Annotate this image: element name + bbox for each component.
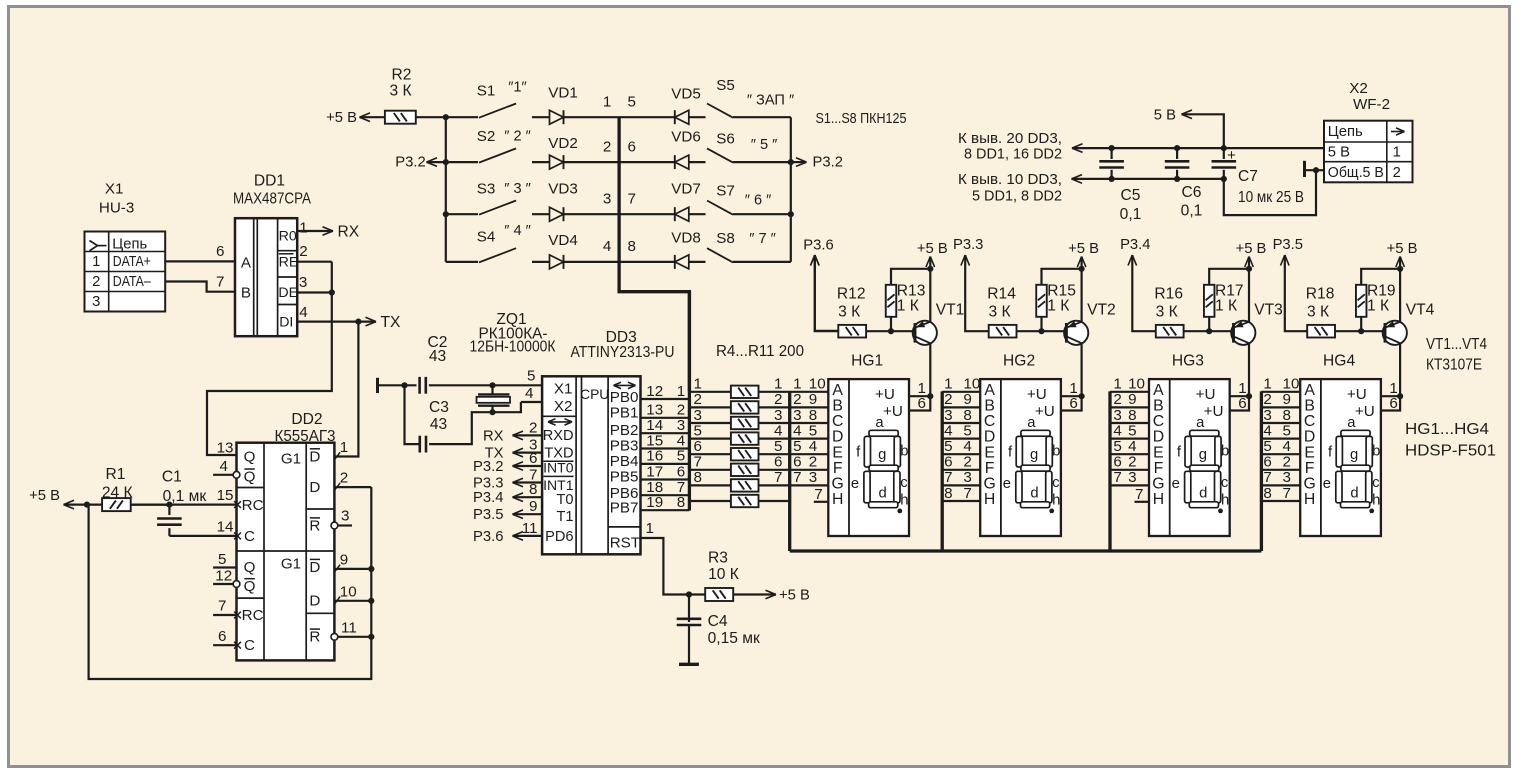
svg-text:+5 В: +5 В — [779, 587, 810, 603]
svg-text:+U: +U — [875, 386, 895, 403]
svg-text:X1: X1 — [105, 180, 124, 197]
svg-text:C6: C6 — [1182, 184, 1202, 201]
svg-text:3: 3 — [603, 190, 611, 207]
svg-text:C1: C1 — [162, 468, 182, 485]
svg-text:Общ.5 В: Общ.5 В — [1328, 165, 1384, 181]
svg-text:D: D — [1153, 429, 1164, 446]
svg-text:Р3.2: Р3.2 — [395, 155, 425, 171]
svg-text:5: 5 — [527, 367, 535, 384]
svg-text:6: 6 — [774, 454, 782, 471]
svg-text:6: 6 — [694, 438, 702, 455]
svg-text:R14: R14 — [987, 285, 1016, 302]
svg-text:B: B — [832, 398, 843, 415]
svg-text:+U: +U — [1204, 403, 1224, 420]
svg-text:10 мк 25 В: 10 мк 25 В — [1238, 189, 1304, 206]
svg-text:6: 6 — [793, 454, 801, 471]
svg-text:c: c — [900, 475, 908, 491]
svg-text:3: 3 — [1128, 469, 1136, 486]
svg-text:Р3.5: Р3.5 — [1273, 237, 1303, 253]
svg-text:8: 8 — [1263, 485, 1271, 502]
svg-text:Q: Q — [244, 449, 256, 466]
svg-text:7: 7 — [216, 274, 224, 291]
svg-text:d: d — [1199, 486, 1207, 502]
svg-text:5 В: 5 В — [1328, 145, 1350, 161]
svg-text:A: A — [241, 255, 252, 272]
svg-text:R1: R1 — [106, 466, 126, 483]
svg-text:VD2: VD2 — [548, 135, 578, 152]
svg-text:HG3: HG3 — [1172, 352, 1204, 369]
svg-text:8: 8 — [529, 481, 537, 498]
svg-text:HG2: HG2 — [1003, 352, 1035, 369]
svg-text:VD8: VD8 — [671, 229, 701, 246]
svg-text:6: 6 — [1263, 454, 1271, 471]
svg-text:H: H — [984, 491, 995, 508]
svg-text:2: 2 — [1283, 454, 1291, 471]
svg-text:h: h — [1052, 492, 1060, 508]
svg-text:43: 43 — [429, 348, 446, 365]
svg-text:VT3: VT3 — [1254, 302, 1283, 319]
svg-text:e: e — [1003, 476, 1011, 492]
svg-text:1: 1 — [1393, 145, 1401, 161]
svg-text:2: 2 — [774, 391, 782, 408]
svg-text:R12: R12 — [837, 285, 866, 302]
svg-text:2: 2 — [944, 391, 952, 408]
svg-text:″ 7 ″: ″ 7 ″ — [749, 231, 776, 247]
svg-text:X2: X2 — [554, 398, 573, 415]
svg-text:h: h — [1221, 492, 1229, 508]
svg-text:VD3: VD3 — [548, 181, 578, 198]
svg-text:c: c — [1052, 475, 1060, 491]
svg-text:3: 3 — [809, 469, 817, 486]
svg-text:MAX487CPA: MAX487CPA — [233, 191, 312, 208]
svg-text:R: R — [309, 517, 320, 534]
svg-text:D: D — [309, 479, 320, 496]
svg-text:2: 2 — [963, 454, 971, 471]
svg-text:E: E — [984, 444, 995, 461]
svg-text:4: 4 — [1283, 438, 1291, 455]
svg-text:+U: +U — [1196, 386, 1216, 403]
svg-text:b: b — [1372, 443, 1380, 459]
svg-text:″ 6 ″: ″ 6 ″ — [745, 193, 772, 209]
svg-text:g: g — [1199, 447, 1207, 463]
svg-text:A: A — [832, 382, 843, 399]
svg-text:4: 4 — [299, 304, 307, 321]
svg-text:C: C — [1304, 413, 1315, 430]
svg-text:4: 4 — [1113, 422, 1121, 439]
svg-text:H: H — [1304, 491, 1315, 508]
svg-text:C4: C4 — [708, 613, 728, 630]
svg-text:d: d — [1350, 486, 1358, 502]
svg-text:R16: R16 — [1154, 285, 1183, 302]
svg-text:VT1...VT4: VT1...VT4 — [1426, 336, 1487, 353]
svg-text:Р3.2: Р3.2 — [473, 459, 503, 475]
svg-text:0,1 мк: 0,1 мк — [163, 488, 207, 505]
svg-text:PD6: PD6 — [545, 529, 573, 545]
svg-text:10 К: 10 К — [708, 566, 739, 583]
svg-text:5: 5 — [809, 422, 817, 439]
svg-text:9: 9 — [340, 552, 348, 569]
svg-text:11: 11 — [341, 619, 357, 636]
svg-text:6: 6 — [944, 454, 952, 471]
svg-text:3: 3 — [1113, 407, 1121, 424]
svg-text:B: B — [241, 285, 251, 302]
svg-text:5: 5 — [1283, 422, 1291, 439]
svg-text:5 В: 5 В — [1154, 108, 1176, 124]
svg-text:H: H — [832, 491, 843, 508]
svg-text:C: C — [832, 413, 843, 430]
svg-text:6: 6 — [677, 463, 685, 480]
svg-text:12: 12 — [215, 568, 232, 585]
svg-text:+U: +U — [1347, 386, 1367, 403]
svg-text:d: d — [1030, 486, 1038, 502]
svg-text:R18: R18 — [1306, 285, 1335, 302]
svg-text:b: b — [1052, 443, 1060, 459]
svg-text:5: 5 — [793, 438, 801, 455]
svg-text:+5 В: +5 В — [1068, 241, 1099, 257]
svg-text:+U: +U — [883, 403, 903, 420]
svg-text:Цепь: Цепь — [1328, 124, 1363, 140]
svg-text:Q: Q — [244, 468, 256, 485]
svg-text:Р3.3: Р3.3 — [473, 476, 503, 492]
svg-text:D: D — [1304, 429, 1315, 446]
svg-text:d: d — [878, 486, 886, 502]
svg-text:PB5: PB5 — [610, 469, 639, 486]
svg-text:TX: TX — [381, 314, 402, 331]
svg-text:C5: C5 — [1121, 187, 1141, 204]
svg-text:1: 1 — [603, 93, 611, 110]
svg-text:7: 7 — [1135, 486, 1143, 503]
svg-text:e: e — [1323, 476, 1331, 492]
svg-text:g: g — [878, 447, 886, 463]
svg-text:5 DD1, 8 DD2: 5 DD1, 8 DD2 — [972, 188, 1062, 204]
svg-text:T0: T0 — [556, 492, 573, 508]
svg-text:8: 8 — [694, 469, 702, 486]
svg-text:S8: S8 — [716, 230, 735, 247]
svg-text:1: 1 — [793, 376, 801, 393]
svg-text:6: 6 — [918, 395, 926, 412]
svg-text:1: 1 — [92, 254, 100, 270]
svg-text:3: 3 — [793, 407, 801, 424]
svg-text:HU-3: HU-3 — [99, 199, 134, 216]
svg-text:9: 9 — [809, 391, 817, 408]
svg-text:3: 3 — [341, 508, 349, 525]
svg-text:2: 2 — [603, 138, 611, 155]
svg-text:7: 7 — [944, 469, 952, 486]
svg-text:16: 16 — [646, 448, 663, 465]
svg-text:D: D — [309, 593, 320, 610]
svg-text:7: 7 — [1113, 469, 1121, 486]
svg-text:10: 10 — [340, 583, 357, 600]
svg-text:6: 6 — [1238, 395, 1246, 412]
svg-text:43: 43 — [430, 416, 447, 433]
svg-text:D: D — [309, 559, 320, 576]
svg-text:H: H — [1153, 491, 1164, 508]
svg-text:PB0: PB0 — [610, 389, 639, 406]
svg-text:4: 4 — [603, 238, 611, 255]
svg-text:DATA–: DATA– — [113, 274, 152, 290]
svg-text:Р3.5: Р3.5 — [473, 507, 503, 523]
svg-text:5: 5 — [1128, 422, 1136, 439]
svg-text:5: 5 — [218, 551, 226, 568]
svg-text:4: 4 — [944, 422, 952, 439]
svg-text:2: 2 — [529, 419, 537, 436]
svg-text:c: c — [1372, 475, 1380, 491]
svg-text:RE: RE — [279, 254, 299, 270]
svg-text:B: B — [1153, 398, 1164, 415]
svg-text:5: 5 — [694, 422, 702, 439]
svg-text:7: 7 — [814, 486, 822, 503]
svg-text:6: 6 — [1069, 395, 1077, 412]
svg-text:КТ3107Е: КТ3107Е — [1426, 357, 1482, 374]
svg-text:3 К: 3 К — [1156, 303, 1178, 320]
svg-text:PB4: PB4 — [610, 453, 639, 470]
svg-text:VT1: VT1 — [936, 302, 965, 319]
svg-text:9: 9 — [529, 498, 537, 515]
svg-text:HG4: HG4 — [1323, 352, 1355, 369]
svg-text:VD4: VD4 — [548, 232, 578, 249]
svg-text:2: 2 — [340, 470, 348, 487]
svg-text:2: 2 — [1263, 391, 1271, 408]
svg-text:1: 1 — [694, 376, 702, 393]
svg-text:S2: S2 — [477, 128, 496, 145]
svg-text:R0: R0 — [279, 229, 297, 245]
svg-text:2: 2 — [809, 454, 817, 471]
svg-text:+5 В: +5 В — [1236, 241, 1267, 257]
svg-text:3 К: 3 К — [389, 82, 411, 99]
svg-text:G: G — [1303, 476, 1315, 493]
svg-text:1 К: 1 К — [897, 298, 919, 315]
svg-text:2: 2 — [694, 391, 702, 408]
svg-text:0,1: 0,1 — [1181, 203, 1203, 220]
svg-text:h: h — [900, 492, 908, 508]
svg-text:4: 4 — [1128, 438, 1136, 455]
svg-text:F: F — [1154, 460, 1164, 477]
svg-text:B: B — [984, 398, 995, 415]
svg-text:R4...R11 200: R4...R11 200 — [716, 343, 804, 360]
svg-text:К555АГ3: К555АГ3 — [275, 428, 336, 445]
svg-text:S1: S1 — [477, 83, 496, 100]
svg-text:DI: DI — [279, 315, 293, 331]
svg-text:X2: X2 — [1349, 80, 1368, 97]
svg-text:10: 10 — [809, 376, 826, 393]
svg-text:7: 7 — [218, 598, 226, 615]
svg-text:E: E — [1153, 444, 1164, 461]
svg-text:Цепь: Цепь — [112, 237, 147, 253]
svg-text:9: 9 — [1128, 391, 1136, 408]
svg-text:7: 7 — [1263, 469, 1271, 486]
svg-text:8: 8 — [963, 407, 971, 424]
svg-text:HG1: HG1 — [851, 352, 883, 369]
svg-text:4: 4 — [525, 385, 533, 402]
svg-text:17: 17 — [646, 463, 663, 480]
svg-text:Q: Q — [244, 559, 256, 576]
svg-text:VT4: VT4 — [1406, 302, 1435, 319]
svg-text:5: 5 — [963, 422, 971, 439]
svg-text:A: A — [984, 382, 995, 399]
svg-text:Р3.4: Р3.4 — [1120, 237, 1150, 253]
svg-text:VD6: VD6 — [671, 129, 701, 146]
svg-text:4: 4 — [963, 438, 971, 455]
svg-text:К выв. 20 DD3,: К выв. 20 DD3, — [958, 131, 1062, 147]
svg-text:4: 4 — [1263, 422, 1271, 439]
svg-text:5: 5 — [944, 438, 952, 455]
svg-text:11: 11 — [522, 520, 538, 537]
svg-text:R2: R2 — [392, 67, 412, 84]
svg-text:″ 2 ″: ″ 2 ″ — [504, 129, 531, 145]
svg-text:7: 7 — [963, 485, 971, 502]
svg-text:1: 1 — [1263, 376, 1271, 393]
svg-text:HG1...HG4: HG1...HG4 — [1405, 421, 1489, 438]
svg-text:10: 10 — [963, 376, 980, 393]
svg-text:1: 1 — [1113, 376, 1121, 393]
svg-text:″ 3 ″: ″ 3 ″ — [504, 181, 531, 197]
svg-text:1 К: 1 К — [1367, 298, 1389, 315]
svg-text:″1″: ″1″ — [508, 80, 526, 96]
svg-text:CPU: CPU — [580, 387, 609, 402]
svg-text:E: E — [1304, 444, 1315, 461]
svg-text:X1: X1 — [554, 380, 573, 397]
svg-text:″ ЗАП ″: ″ ЗАП ″ — [747, 93, 794, 109]
svg-text:DD2: DD2 — [291, 411, 322, 428]
svg-text:PB2: PB2 — [610, 422, 639, 439]
svg-text:7: 7 — [793, 469, 801, 486]
svg-text:S5: S5 — [716, 77, 735, 94]
svg-text:7: 7 — [1283, 485, 1291, 502]
svg-text:8: 8 — [1283, 407, 1291, 424]
svg-text:0,1: 0,1 — [1120, 206, 1142, 223]
svg-text:9: 9 — [1283, 391, 1291, 408]
svg-text:2: 2 — [92, 274, 100, 290]
svg-text:4: 4 — [774, 422, 782, 439]
svg-text:5: 5 — [677, 448, 685, 465]
svg-text:+5 В: +5 В — [917, 241, 948, 257]
svg-text:1: 1 — [677, 383, 685, 400]
svg-text:RX: RX — [338, 224, 360, 241]
svg-text:C: C — [244, 637, 255, 654]
svg-text:G: G — [1152, 476, 1164, 493]
svg-text:2: 2 — [793, 391, 801, 408]
svg-text:2: 2 — [1113, 391, 1121, 408]
svg-text:HDSP-F501: HDSP-F501 — [1405, 442, 1496, 459]
svg-text:RC: RC — [242, 497, 264, 514]
svg-text:C: C — [984, 413, 995, 430]
svg-text:DATA+: DATA+ — [113, 254, 151, 270]
svg-text:RC: RC — [242, 607, 264, 624]
svg-text:+: + — [1227, 147, 1236, 164]
svg-text:b: b — [1221, 443, 1229, 459]
svg-text:2: 2 — [1393, 165, 1401, 181]
svg-text:1: 1 — [646, 520, 654, 537]
svg-text:К выв. 10 DD3,: К выв. 10 DD3, — [958, 172, 1062, 188]
svg-text:3: 3 — [92, 294, 100, 310]
svg-text:D: D — [832, 429, 843, 446]
svg-text:S3: S3 — [477, 181, 496, 198]
svg-text:+U: +U — [1027, 386, 1047, 403]
svg-text:RST: RST — [610, 535, 640, 552]
svg-text:+5 В: +5 В — [29, 488, 60, 504]
svg-text:2: 2 — [1128, 454, 1136, 471]
svg-text:F: F — [1305, 460, 1315, 477]
svg-text:3: 3 — [774, 407, 782, 424]
svg-text:6: 6 — [218, 628, 226, 645]
svg-text:14: 14 — [217, 518, 234, 535]
svg-text:D: D — [984, 429, 995, 446]
svg-text:6: 6 — [1113, 454, 1121, 471]
svg-text:S6: S6 — [716, 131, 735, 148]
svg-text:1: 1 — [944, 376, 952, 393]
svg-text:PB1: PB1 — [610, 405, 639, 422]
svg-text:3 К: 3 К — [1307, 303, 1329, 320]
svg-text:T1: T1 — [556, 509, 573, 525]
svg-text:PB3: PB3 — [610, 437, 639, 454]
svg-text:″ 4 ″: ″ 4 ″ — [504, 223, 531, 239]
svg-text:C3: C3 — [429, 399, 449, 416]
svg-text:5: 5 — [628, 93, 636, 110]
svg-text:6: 6 — [1389, 395, 1397, 412]
svg-text:10: 10 — [1283, 376, 1300, 393]
svg-text:4: 4 — [220, 458, 228, 475]
svg-text:0,15 мк: 0,15 мк — [708, 630, 760, 647]
svg-text:A: A — [1153, 382, 1164, 399]
svg-text:c: c — [1221, 475, 1229, 491]
svg-text:Р3.6: Р3.6 — [473, 529, 503, 545]
svg-text:VD1: VD1 — [548, 85, 578, 102]
svg-text:WF-2: WF-2 — [1353, 96, 1390, 113]
svg-text:4: 4 — [793, 422, 801, 439]
svg-text:6: 6 — [216, 243, 224, 260]
svg-text:Р3.6: Р3.6 — [803, 237, 833, 253]
svg-text:g: g — [1350, 447, 1358, 463]
svg-text:Q: Q — [244, 578, 256, 595]
svg-text:A: A — [1304, 382, 1315, 399]
svg-text:4: 4 — [809, 438, 817, 455]
svg-text:10: 10 — [1128, 376, 1145, 393]
svg-text:1: 1 — [774, 376, 782, 393]
svg-text:C: C — [244, 528, 255, 545]
svg-text:C: C — [1153, 413, 1164, 430]
svg-text:F: F — [833, 460, 843, 477]
svg-text:R: R — [309, 629, 320, 646]
svg-text:INT1: INT1 — [543, 477, 574, 493]
svg-text:VD7: VD7 — [671, 181, 701, 198]
svg-text:DD1: DD1 — [254, 173, 285, 190]
svg-text:e: e — [1172, 476, 1180, 492]
svg-text:S7: S7 — [716, 183, 735, 200]
svg-text:+5 В: +5 В — [326, 110, 357, 126]
svg-text:+5 В: +5 В — [1387, 241, 1418, 257]
svg-text:5: 5 — [1263, 438, 1271, 455]
svg-text:19: 19 — [646, 494, 663, 511]
svg-text:C7: C7 — [1238, 168, 1258, 185]
svg-text:Р3.4: Р3.4 — [473, 490, 503, 506]
svg-text:8 DD1, 16 DD2: 8 DD1, 16 DD2 — [964, 147, 1062, 163]
svg-text:PB7: PB7 — [610, 500, 639, 517]
svg-text:VT2: VT2 — [1087, 302, 1116, 319]
svg-text:DE: DE — [278, 285, 298, 301]
svg-text:6: 6 — [529, 450, 537, 467]
svg-text:12БН-10000К: 12БН-10000К — [470, 339, 556, 356]
svg-text:ATTINY2313-PU: ATTINY2313-PU — [571, 344, 675, 361]
svg-text:1 К: 1 К — [1215, 298, 1237, 315]
svg-text:9: 9 — [963, 391, 971, 408]
svg-text:7: 7 — [628, 190, 636, 207]
svg-text:Р3.3: Р3.3 — [953, 237, 983, 253]
svg-text:R3: R3 — [708, 550, 728, 567]
svg-text:12: 12 — [646, 383, 663, 400]
svg-text:3 К: 3 К — [838, 303, 860, 320]
svg-text:24 К: 24 К — [102, 484, 133, 501]
svg-text:RX: RX — [483, 428, 504, 444]
